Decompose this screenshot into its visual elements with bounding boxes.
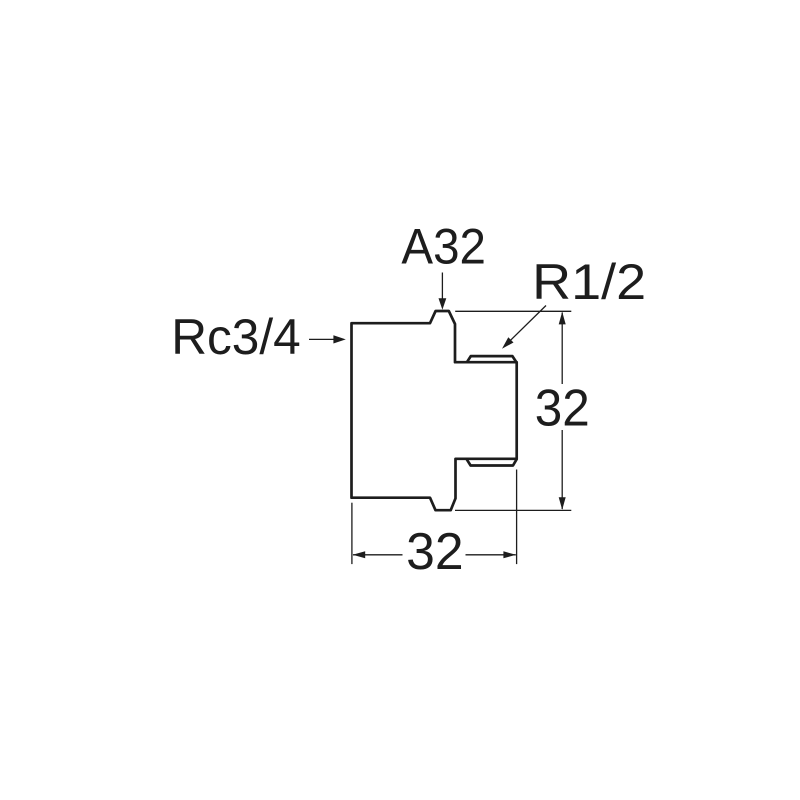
- leader line Rc3/4 (horizontal): [309, 338, 334, 340]
- arrowhead right (horizontal dim): [503, 551, 516, 558]
- thread chamfer bottom (R1/2 crest): [466, 459, 517, 466]
- arrowhead A32 (down onto ridge): [439, 298, 447, 310]
- arrowhead Rc3/4 (right onto body face): [333, 335, 345, 343]
- extension line bottom (from notch bottom to right): [455, 509, 571, 511]
- horizontal dimension line 32 (right segment): [466, 554, 516, 556]
- leader line A32 (vertical): [441, 273, 443, 300]
- svg-text:R1/2: R1/2: [532, 253, 646, 310]
- vertical dimension line 32 (lower segment): [561, 430, 563, 509]
- horizontal dimension line 32 (left segment): [353, 554, 403, 556]
- arrowhead up (vertical dim top): [559, 312, 566, 325]
- fitting body outline (hex body with A32 ridge and bottom notch): [352, 311, 517, 510]
- svg-text:32: 32: [535, 378, 590, 436]
- svg-text:Rc3/4: Rc3/4: [171, 308, 301, 365]
- vertical dimension line 32 (upper segment): [561, 313, 563, 385]
- svg-text:32: 32: [406, 522, 464, 580]
- thread chamfer top (R1/2 crest): [467, 356, 517, 362]
- arrowhead left (horizontal dim): [353, 551, 366, 558]
- extension line bottom-left (from body left face down): [351, 503, 353, 564]
- leader line R1/2 (diagonal): [505, 306, 546, 346]
- arrowhead down (vertical dim bottom): [559, 497, 566, 510]
- svg-text:A32: A32: [401, 217, 486, 274]
- extension line bottom-right (from thread face down): [516, 470, 518, 565]
- extension line top (from ridge top to right): [455, 310, 571, 312]
- arrowhead R1/2 (down-left onto thread): [502, 337, 514, 349]
